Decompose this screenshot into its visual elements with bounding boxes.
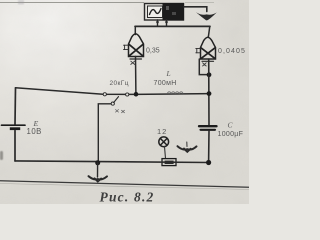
svg-text:10В: 10В bbox=[27, 127, 42, 136]
fuse box on bottom wire bbox=[162, 159, 176, 166]
junction dot HL2 stem / right bus bbox=[207, 72, 212, 77]
capacitor C 1000µF bbox=[199, 126, 217, 130]
lamp HL1 base mark bbox=[131, 61, 135, 64]
lamp HL2 base line bbox=[202, 60, 214, 62]
ground stem bbox=[97, 163, 99, 177]
generator G1 (sine-wave source box) bbox=[145, 4, 184, 21]
ground symbol (winged) bbox=[89, 176, 108, 181]
junction dot bottom right bbox=[206, 160, 211, 165]
switch SA lever bbox=[114, 97, 119, 103]
wire: top bus right drop to lamp HL2 bbox=[208, 26, 210, 37]
switch SA contact circle left bbox=[103, 93, 106, 96]
inductor L (bumps on loop wire) bbox=[168, 92, 183, 94]
left edge smudge bbox=[0, 151, 3, 160]
wire: HL3 stem to fuse box bbox=[165, 147, 166, 159]
bottom page rule bbox=[0, 181, 249, 187]
wire: bottom bus bbox=[15, 161, 209, 163]
wire from generator to probe arrow bbox=[184, 7, 207, 12]
wire: main loop top (battery corner to right bus, through switch) bbox=[16, 88, 210, 95]
lamp HL2 (right lamp 0,0405) bbox=[201, 37, 216, 59]
lamp HL2 side contact ticks bbox=[196, 49, 201, 53]
paper background bbox=[0, 0, 249, 204]
battery E: long plate bbox=[2, 124, 26, 126]
generator leg left bbox=[157, 20, 159, 26]
lamp HL1 (left lamp 0,35) bbox=[129, 34, 144, 57]
probe arrow (down) at top right bbox=[196, 12, 217, 20]
svg-text:1000µF: 1000µF bbox=[218, 131, 244, 138]
junction dot loop wire / HL1 stem bbox=[134, 92, 139, 97]
wire: right bus below capacitor bbox=[208, 131, 210, 163]
arrow symbol near HL3 (down arrow) bbox=[178, 142, 197, 152]
generator leg contact blobs bbox=[156, 21, 159, 24]
junction dot loop wire / right bus bbox=[207, 91, 212, 96]
svg-text:Рис. 8.2: Рис. 8.2 bbox=[100, 190, 155, 205]
lamp HL2 base mark bbox=[203, 63, 207, 66]
wire: right bus (top corner to capacitor) bbox=[208, 59, 210, 126]
wire: top bus bbox=[135, 25, 210, 27]
battery E: short thick plate bbox=[10, 127, 20, 130]
switch SA moving contact circle bbox=[111, 102, 114, 105]
svg-text:700мН: 700мН bbox=[154, 80, 177, 87]
faint top page rule bbox=[0, 2, 144, 4]
svg-text:0,0405: 0,0405 bbox=[218, 48, 246, 55]
lamp HL1 side contact ticks bbox=[124, 45, 129, 49]
svg-text:0,35: 0,35 bbox=[146, 48, 160, 55]
svg-text:20кГц: 20кГц bbox=[110, 80, 129, 87]
wire: left branch (battery) vertical bbox=[14, 88, 17, 125]
wire: HL1 stem down to loop wire bbox=[135, 57, 137, 95]
switch SA lower stub wire bbox=[98, 104, 111, 162]
junction dot bottom / ground stem bbox=[95, 160, 100, 165]
svg-text:12: 12 bbox=[157, 127, 167, 136]
wire: HL2 stem down with jog to right bus bbox=[199, 59, 209, 75]
svg-text:L: L bbox=[166, 69, 171, 78]
wire: top bus left drop to lamp HL1 bbox=[134, 26, 136, 34]
generator leg right bbox=[166, 20, 168, 26]
lamp HL1 base line bbox=[130, 58, 142, 60]
lamp HL3 (indicator, label 12) bbox=[159, 137, 169, 147]
switch SA marks bbox=[116, 110, 125, 113]
switch SA contact circle right bbox=[126, 93, 129, 96]
